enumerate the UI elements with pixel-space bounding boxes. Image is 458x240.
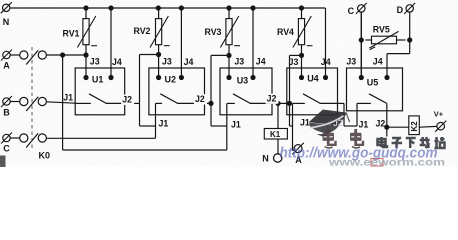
varistor RV2 foot tick	[164, 45, 170, 47]
U3 coil pin J4 node	[250, 75, 255, 80]
wire chain U4-U5 horizontal	[344, 125, 357, 127]
relay unit U3 box	[220, 68, 272, 115]
varistor RV4 diagonal	[293, 16, 311, 48]
switch K0 pole B contact right	[38, 97, 46, 105]
wire U5 out to K2	[387, 126, 409, 128]
watermark character 2	[350, 129, 363, 148]
wire RV3 bottom feed	[211, 54, 229, 56]
varistor RV5 body	[372, 36, 397, 44]
node top rail at RV1 top	[83, 5, 88, 10]
varistor RV5 leads	[365, 39, 371, 41]
watermark gray site name characters	[378, 137, 445, 148]
varistor RV4 foot tick	[307, 45, 313, 47]
varistor RV5 diagonal	[369, 31, 398, 48]
wire RV2 bottom feed	[140, 54, 159, 56]
wire RV3 feed riser / chain drop	[210, 55, 212, 126]
wire chain U4 J1 riser	[292, 103, 294, 126]
terminal C input	[3, 134, 10, 141]
U2 coil pin J3 wire	[158, 55, 160, 78]
switch K0 linkage (dash-dot)	[31, 47, 33, 148]
node RV1 bottom / U1 J3	[83, 52, 88, 57]
wire RV4 bottom feed	[290, 54, 302, 56]
relay unit U2 box	[149, 68, 205, 115]
U5 coil pin J3 wire	[360, 12, 362, 77]
node top rail at J4 U3	[250, 5, 255, 10]
varistor RV1 body	[83, 19, 89, 45]
wire U4 riser down to A output	[292, 126, 294, 150]
U3 contact left lead	[227, 102, 235, 104]
label J2 U3	[266, 94, 279, 104]
U4 coil pin J3 wire	[301, 55, 303, 78]
varistor RV1 diagonal	[77, 16, 95, 48]
wire U4 J2 out	[338, 102, 345, 104]
varistor RV1 bottom lead	[85, 45, 87, 55]
switch K0 pole A contact right	[38, 51, 46, 59]
relay unit U5 box	[347, 68, 403, 111]
relay K2 box	[409, 116, 420, 135]
U4 coil pin J3 node	[299, 75, 304, 80]
switch K0 pole C blade	[26, 133, 38, 147]
terminal A output	[294, 145, 302, 153]
U2 coil pin J4 wire	[180, 8, 182, 78]
wire phase A bottom rail	[63, 149, 227, 151]
wire chain U1-U2 horizontal	[140, 125, 156, 127]
wire phase B row to U1 J1	[46, 102, 75, 103]
U5 coil pin J3 node	[359, 75, 364, 80]
wire chain U2-U3 horizontal	[211, 125, 227, 127]
varistor RV4 body	[298, 19, 304, 45]
varistor RV3 top lead	[228, 8, 230, 19]
wire phase A vertical drop	[62, 55, 64, 150]
terminal B input	[3, 98, 10, 105]
U2 contact right lead	[177, 102, 204, 104]
U4 coil pin J4 wire	[325, 8, 327, 78]
node RV5 right	[407, 37, 412, 42]
node U2 out junction	[208, 101, 213, 106]
varistor RV4 top lead	[301, 8, 303, 19]
U4 contact blade (open)	[303, 94, 320, 104]
terminal V+	[437, 122, 445, 130]
switch K0 pole A blade	[26, 50, 38, 64]
U2 contact blade (open)	[160, 94, 177, 104]
U1 coil pin J3 wire	[85, 55, 87, 78]
relay unit U4 box	[287, 68, 338, 115]
varistor RV4 bottom lead	[301, 45, 303, 56]
U5 contact left lead	[357, 102, 371, 104]
varistor RV2 diagonal	[150, 16, 168, 48]
wire chain U4 drop	[343, 103, 345, 126]
U4 contact right lead	[320, 102, 338, 104]
node RV3 bottom	[226, 53, 231, 58]
varistor RV2 body	[156, 19, 162, 45]
node U3 out to K1	[275, 101, 280, 106]
node RV2 bottom	[156, 52, 161, 57]
node top rail at J4 U2	[179, 5, 184, 10]
wire chain U3-U4 horizontal	[290, 125, 293, 127]
varistor RV3 diagonal	[220, 16, 238, 48]
U3 coil pin J3 node	[226, 75, 231, 80]
relay K1 box	[264, 129, 287, 140]
wire K1 to N output	[277, 139, 279, 154]
U5 coil pin J4 node	[384, 75, 389, 80]
varistor RV3 body	[226, 19, 232, 45]
U1 coil pin J4 wire	[110, 8, 112, 78]
terminal N output	[274, 154, 282, 162]
U2 coil pin J3 node	[156, 75, 161, 80]
terminal N input	[2, 4, 9, 11]
U4 contact left lead	[293, 102, 305, 104]
varistor RV2 top lead	[158, 8, 160, 19]
node top rail at RV2 top	[156, 5, 161, 10]
wire phase C row	[46, 137, 155, 139]
node RV5 left	[359, 37, 364, 42]
wire RV2 feed riser	[139, 55, 141, 127]
U1 coil pin J3 node	[83, 75, 88, 80]
wire U1 J2 out to RV2 node	[125, 102, 140, 104]
wire A to switch	[10, 54, 19, 56]
wire B to switch	[10, 101, 19, 103]
wire phase A row	[46, 54, 86, 56]
wire U2 J2 out	[205, 102, 212, 104]
U2 contact left lead	[156, 102, 163, 104]
switch K0 pole C contact right	[38, 134, 46, 142]
varistor RV1 top lead	[85, 8, 87, 19]
wire U5 J2 drop	[386, 103, 388, 127]
wire C drop to RV5/U5	[360, 12, 362, 77]
switch K0 pole C contact left	[20, 134, 28, 142]
wire U3 out down to K1	[277, 103, 279, 128]
node top rail at J4 U1	[108, 5, 113, 10]
node RV4 bottom	[299, 53, 304, 58]
label J2 U1	[121, 95, 134, 105]
relay unit U1 box	[75, 68, 125, 115]
switch K0 pole B contact left	[20, 97, 28, 105]
watermark corner mark	[0, 156, 6, 168]
node A drop junction	[60, 52, 65, 57]
U2 coil pin J4 node	[179, 75, 184, 80]
U3 coil pin J3 wire	[228, 55, 230, 78]
node top rail at RV4 top	[299, 5, 304, 10]
U1 contact right lead	[106, 102, 125, 104]
U1 coil pin J4 node	[108, 75, 113, 80]
terminal A input	[3, 51, 10, 58]
varistor RV1 foot tick	[91, 45, 97, 47]
U3 coil pin J4 wire	[252, 8, 254, 78]
varistor RV3 bottom lead	[228, 45, 230, 56]
wire N top rail	[11, 7, 326, 9]
switch K0 pole A contact left	[20, 51, 28, 59]
U1 contact blade (open)	[89, 94, 106, 104]
varistor RV2 bottom lead	[158, 45, 160, 56]
node top rail at RV3 top	[226, 5, 231, 10]
watermark small red box	[371, 159, 383, 167]
wire U3 J2 out	[272, 102, 290, 104]
node U5 out	[384, 125, 389, 130]
wire chain U3 J1 riser	[226, 103, 228, 150]
U5 contact blade (open)	[369, 94, 387, 104]
U3 contact right lead	[250, 102, 272, 104]
watermark dark wing logo	[309, 110, 347, 126]
label J2 U2	[194, 94, 207, 104]
U4 coil pin J4 node	[323, 75, 328, 80]
scan noise overlay (decorative)	[0, 0, 1, 1]
wire RV4 feed riser / chain drop	[289, 55, 291, 126]
switch K0 pole B blade	[26, 97, 38, 111]
varistor RV5 foot tick	[370, 47, 375, 50]
wire K2 to V+	[419, 125, 437, 128]
wire C to switch	[10, 137, 19, 139]
wire chain U5 J1 riser	[356, 103, 358, 126]
wire chain U2 J1 riser	[155, 103, 157, 138]
watermark character 1	[323, 129, 336, 148]
wire U5 out stub	[386, 127, 388, 136]
wire D drop	[409, 12, 411, 53]
U3 contact blade (open)	[233, 94, 250, 104]
wire D jog to U5 J4	[387, 53, 410, 55]
node U3 out to RV4	[287, 101, 292, 106]
varistor RV3 foot tick	[234, 45, 240, 47]
U1 contact left lead	[75, 102, 91, 104]
